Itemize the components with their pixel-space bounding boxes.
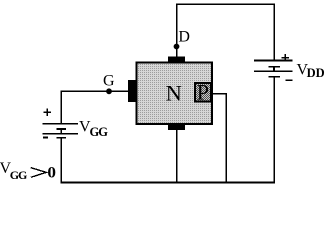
wire: top rail from drain to VDD battery xyxy=(177,4,275,61)
greater-than symbol (drawn) xyxy=(31,168,46,178)
svg-text:0: 0 xyxy=(47,165,56,182)
node D (dot) xyxy=(174,44,180,50)
transistor body: N region (stippled box) xyxy=(137,63,212,124)
wire: VDD bottom vertical down to bottom rail xyxy=(273,77,275,184)
svg-text:P: P xyxy=(197,80,209,105)
battery VGG xyxy=(43,124,79,138)
wire: bottom rail xyxy=(61,182,275,184)
node G (dot) xyxy=(106,88,112,94)
source contact (bottom metal) xyxy=(168,124,185,130)
battery VDD xyxy=(254,61,293,77)
plus sign VGG xyxy=(44,109,51,116)
drain contact (top metal) xyxy=(168,56,185,62)
minus sign VGG xyxy=(43,136,48,138)
svg-text:N: N xyxy=(166,80,182,105)
svg-text:GG: GG xyxy=(90,125,109,139)
svg-text:D: D xyxy=(178,29,190,46)
P region (checkered box) xyxy=(195,83,211,102)
svg-text:G: G xyxy=(103,73,115,90)
svg-text:GG: GG xyxy=(10,168,28,182)
gate contact (left metal) xyxy=(128,80,137,102)
minus sign VDD xyxy=(286,79,293,81)
wire: VGG left vertical (corner down to battery top plate) xyxy=(60,91,62,124)
wire: source down to bottom rail xyxy=(176,130,178,183)
wire: VGG bottom vertical down to bottom rail xyxy=(60,138,62,183)
wire: gate wire from VGG corner to gate contact xyxy=(61,90,128,92)
plus sign VDD xyxy=(282,54,290,61)
svg-text:DD: DD xyxy=(307,66,325,80)
wire: P region to the right then down to bottom rail xyxy=(212,94,227,184)
